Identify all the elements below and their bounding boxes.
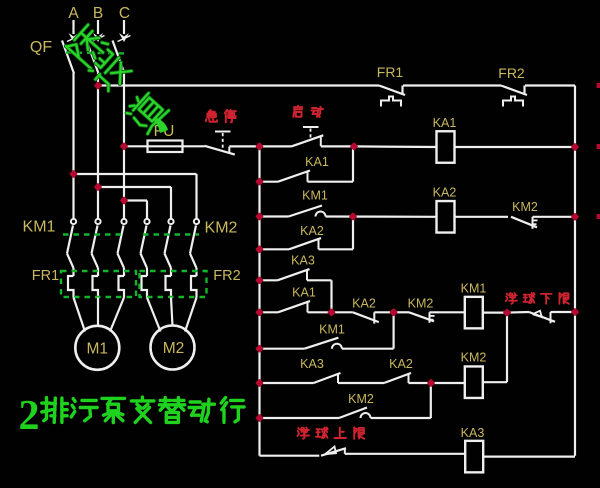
svg-text:M1: M1 [87, 340, 109, 357]
svg-text:B: B [93, 5, 103, 22]
svg-text:KA3: KA3 [461, 426, 485, 440]
svg-text:FR2: FR2 [213, 268, 240, 284]
svg-text:FR1: FR1 [377, 64, 404, 80]
svg-text:M2: M2 [163, 340, 185, 357]
svg-text:KA2: KA2 [352, 297, 376, 311]
svg-text:2: 2 [19, 393, 40, 439]
svg-text:FR2: FR2 [498, 65, 525, 81]
svg-text:KM1: KM1 [461, 282, 487, 296]
svg-text:KA2: KA2 [433, 186, 457, 200]
svg-text:KA1: KA1 [305, 155, 329, 169]
svg-text:KM1: KM1 [319, 323, 345, 337]
svg-text:KM2: KM2 [348, 392, 374, 406]
svg-text:KM2: KM2 [461, 351, 487, 365]
svg-text:KM1: KM1 [302, 189, 328, 203]
svg-text:KA3: KA3 [291, 254, 315, 268]
svg-text:KM2: KM2 [205, 220, 238, 237]
svg-text:KA2: KA2 [389, 357, 413, 371]
svg-text:A: A [68, 5, 79, 22]
svg-text:KA1: KA1 [433, 116, 457, 130]
svg-text:KA3: KA3 [300, 357, 324, 371]
svg-text:QF: QF [30, 39, 52, 56]
svg-text:KM2: KM2 [408, 297, 434, 311]
svg-text:KM1: KM1 [23, 219, 56, 236]
svg-text:C: C [119, 5, 130, 22]
svg-text:KM2: KM2 [512, 200, 538, 214]
svg-text:KA1: KA1 [292, 286, 316, 300]
svg-text:KA2: KA2 [300, 224, 324, 238]
svg-text:FR1: FR1 [32, 268, 59, 284]
